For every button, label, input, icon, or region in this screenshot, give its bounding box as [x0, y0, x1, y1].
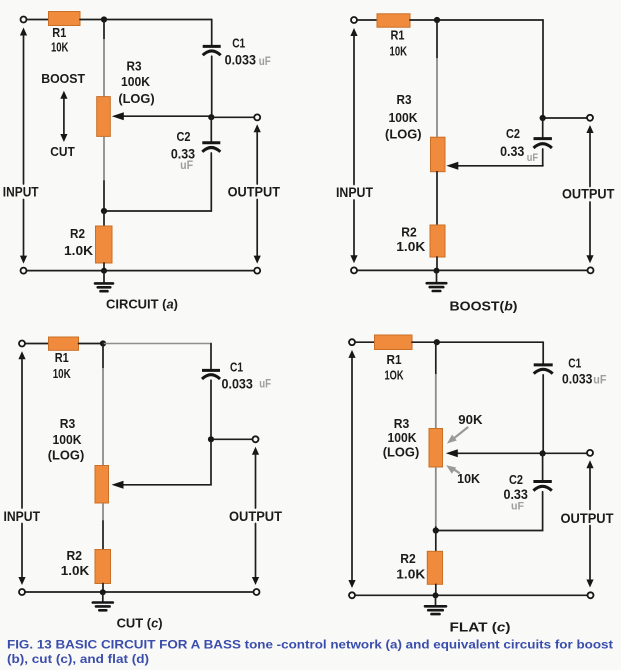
wiper arrow into R3 (circuit a): [112, 112, 212, 120]
node: top junction (circuit c): [100, 340, 106, 346]
wire: R2 top lead already drawn; resistor R2 (circuit b): [430, 225, 445, 257]
terminal: input bottom (circuit d): [349, 592, 355, 598]
bottom rail (circuit d): [355, 594, 587, 596]
node: top junction (circuit d): [434, 339, 440, 345]
svg-text:C2: C2: [506, 126, 520, 141]
svg-text:C1: C1: [230, 359, 243, 374]
wire: C2 top lead (circuit b): [542, 118, 544, 137]
terminal: output bottom (circuit c): [254, 589, 260, 595]
wire: C1 bottom lead (circuit a): [211, 56, 213, 117]
pot track lower gray (circuit c): [102, 503, 104, 521]
svg-text:BOOST(b): BOOST(b): [450, 298, 518, 313]
node: ground junction (circuit a): [101, 268, 107, 274]
terminal: input top (circuit c): [19, 341, 25, 347]
wire: R1 to C1 corner (circuit a): [80, 19, 212, 21]
node: ground junction (circuit d): [433, 592, 439, 598]
wire: R1 to top-right corner (circuit d): [412, 341, 543, 343]
svg-text:uF: uF: [259, 54, 271, 68]
ground (circuit a): [95, 271, 113, 291]
svg-text:R1: R1: [391, 28, 405, 43]
resistor R2 (circuit d): [427, 551, 442, 584]
svg-text:0.033: 0.033: [562, 372, 593, 387]
pot track upper gray (circuit c): [102, 368, 104, 466]
potentiometer R3 (circuit c): [95, 466, 109, 504]
node: pot bottom junction (circuit a): [101, 208, 107, 214]
wire: C2 bottom to lower junction (circuit a): [104, 153, 211, 211]
pot track lower gray (circuit d): [435, 467, 437, 527]
svg-text:FLAT (c): FLAT (c): [450, 619, 511, 634]
input span arrow (circuit d): [348, 350, 355, 588]
svg-text:C2: C2: [177, 129, 191, 144]
wire: pot bottom lead (circuit b): [436, 172, 438, 225]
wire: pot bottom lead (circuit a): [103, 181, 105, 211]
svg-text:R3: R3: [394, 416, 410, 431]
wiper arrow into R3 (circuit b): [446, 162, 543, 170]
svg-text:100K: 100K: [121, 74, 150, 89]
wire: C2 bottom to wiper (circuit b): [542, 149, 544, 166]
svg-text:1.0K: 1.0K: [61, 563, 90, 578]
resistor R2 (circuit c): [95, 550, 111, 584]
svg-text:OUTPUT: OUTPUT: [228, 184, 281, 199]
output span arrow (circuit d): [586, 460, 593, 587]
input span arrow (circuit b): [350, 28, 357, 263]
svg-text:R1: R1: [52, 25, 66, 40]
terminal: output top (circuit b): [587, 115, 593, 121]
wire: pot top lead (circuit b): [436, 20, 438, 58]
terminal: input top (circuit d): [349, 339, 355, 345]
bottom rail (circuit c): [25, 591, 253, 593]
wire: junction to output terminal (circuit c): [214, 438, 253, 440]
svg-text:100K: 100K: [53, 432, 82, 447]
capacitor C1 (circuit c): [202, 370, 220, 379]
resistor R2 (circuit a): [96, 226, 113, 263]
potentiometer R3 (circuit a): [97, 97, 111, 137]
svg-text:OUTPUT: OUTPUT: [229, 509, 283, 524]
terminal: input bottom (circuit a): [21, 268, 27, 274]
wire: C1 bottom lead to wiper node (circuit d): [542, 375, 544, 454]
wire: node to C1 corner light (circuit c): [103, 343, 211, 345]
svg-text:(LOG): (LOG): [383, 446, 420, 460]
terminal: output bottom (circuit d): [588, 592, 594, 598]
pot track upper gray (circuit a): [103, 39, 105, 97]
svg-text:FIG. 13 BASIC CIRCUIT FOR A BA: FIG. 13 BASIC CIRCUIT FOR A BASS tone -c…: [7, 638, 613, 652]
svg-text:10K: 10K: [457, 471, 481, 486]
svg-text:(LOG): (LOG): [48, 449, 85, 463]
wire: junction to R2 (circuit a): [103, 211, 105, 226]
output span arrow (circuit b): [586, 125, 593, 263]
svg-text:CUT: CUT: [50, 144, 75, 159]
node: ground junction (circuit c): [100, 589, 106, 595]
svg-text:R3: R3: [397, 92, 412, 107]
node: lower junction (circuit d): [433, 527, 439, 533]
pot track lower gray (circuit a): [103, 136, 105, 181]
node: ground junction (circuit b): [434, 268, 440, 274]
svg-text:uF: uF: [511, 500, 524, 512]
svg-text:(LOG): (LOG): [118, 92, 154, 106]
svg-text:R2: R2: [401, 225, 417, 240]
node: wiper-output junction (circuit a): [208, 114, 214, 120]
wire: input terminal to R1 (circuit a): [27, 19, 49, 21]
svg-text:100K: 100K: [389, 110, 418, 125]
capacitor C2 (circuit a): [202, 143, 220, 152]
wire: junction to R2 (circuit d): [435, 531, 437, 552]
svg-text:R2: R2: [70, 226, 85, 241]
wire: top corner down to C2 node (circuit b): [542, 20, 544, 118]
ground (circuit c): [93, 592, 113, 610]
terminal: output top (circuit d): [587, 450, 593, 456]
wire: top corner down to C1 (circuit d): [542, 342, 544, 363]
wiper arrow into R3 (circuit d): [446, 449, 587, 457]
svg-text:C2: C2: [509, 472, 523, 487]
svg-text:10K: 10K: [390, 44, 408, 59]
svg-text:0.033: 0.033: [222, 377, 254, 392]
svg-text:(b), cut (c), and flat (d): (b), cut (c), and flat (d): [7, 652, 149, 666]
wire: pot top lead (circuit c): [102, 344, 104, 369]
terminal: input bottom (circuit b): [351, 267, 357, 273]
wire: input terminal to R1 (circuit b): [357, 19, 377, 21]
svg-text:R1: R1: [55, 350, 69, 365]
wire: R2 to bottom rail (circuit a): [103, 263, 105, 271]
terminal: output top (circuit a): [254, 114, 260, 120]
wire: pot top lead (circuit a): [103, 20, 105, 40]
svg-text:0.33: 0.33: [500, 144, 525, 159]
bottom rail (circuit a): [27, 270, 254, 272]
node: wiper-C2 junction (circuit d): [540, 450, 546, 456]
terminal: output top (circuit c): [253, 436, 259, 442]
wire: C1 bottom lead (circuit c): [210, 380, 212, 439]
capacitor C1 (circuit a): [203, 46, 221, 55]
input span arrow (circuit a): [20, 28, 27, 264]
svg-text:uF: uF: [259, 377, 271, 391]
capacitor C2 (circuit d): [533, 482, 551, 491]
wire: C2 top lead (circuit a): [210, 117, 212, 141]
node: output junction (circuit c): [208, 436, 214, 442]
svg-text:1.0K: 1.0K: [396, 567, 426, 582]
svg-text:R2: R2: [66, 548, 82, 563]
svg-text:0.033: 0.033: [225, 53, 257, 68]
svg-text:uF: uF: [593, 372, 606, 386]
wire: R1 to top-right corner (circuit b): [410, 19, 543, 21]
svg-text:1OK: 1OK: [385, 368, 404, 383]
output span arrow (circuit a): [254, 124, 261, 263]
svg-text:(LOG): (LOG): [385, 127, 422, 141]
svg-text:C1: C1: [232, 36, 245, 51]
node: top junction (circuit b): [434, 17, 440, 23]
wiper arrow into R3 (circuit c): [112, 481, 124, 489]
wire: R2 to bottom rail (circuit b): [436, 257, 438, 270]
ground (circuit d): [425, 595, 446, 614]
svg-text:1.0K: 1.0K: [396, 239, 426, 254]
wire: R2 to bottom rail (circuit c): [102, 584, 104, 593]
boost-cut double arrow (circuit a): [60, 91, 67, 142]
wire: C2 bottom to lower junction (circuit d): [436, 492, 543, 531]
resistor R1 (circuit a): [49, 12, 81, 26]
gray arrow 90K to R3 (circuit d): [447, 428, 468, 444]
bottom rail (circuit b): [357, 269, 587, 271]
wire: C1 top lead (circuit a): [211, 20, 213, 46]
wire: junction to output terminal (circuit b): [546, 117, 587, 119]
wire: C1 top lead (circuit c): [210, 344, 212, 370]
svg-text:INPUT: INPUT: [4, 509, 41, 524]
wire: input terminal to R1 (circuit d): [355, 341, 374, 343]
input span arrow (circuit c): [18, 351, 25, 585]
svg-text:uF: uF: [180, 158, 193, 172]
svg-text:INPUT: INPUT: [3, 184, 39, 199]
svg-text:CUT (c): CUT (c): [117, 616, 163, 631]
pot track upper gray (circuit d): [435, 374, 437, 429]
terminal: input bottom (circuit c): [19, 589, 25, 595]
wire: pot top lead (circuit d): [435, 342, 437, 374]
svg-text:10K: 10K: [53, 366, 71, 381]
terminal: input top (circuit b): [351, 17, 357, 23]
capacitor C1 (circuit d): [534, 365, 553, 374]
capacitor C2 (circuit b): [534, 139, 552, 148]
svg-text:OUTPUT: OUTPUT: [562, 187, 615, 202]
wire: input terminal to R1 (circuit c): [25, 343, 48, 345]
resistor R1 (circuit d): [375, 335, 413, 350]
wire: junction down to wiper (circuit c): [122, 442, 211, 485]
potentiometer R3 (circuit b): [431, 137, 446, 172]
pot track upper gray (circuit b): [436, 58, 438, 137]
wire: C2 top lead (circuit d): [542, 453, 544, 480]
wire: pot bottom lead (circuit c): [102, 521, 104, 550]
svg-text:C1: C1: [568, 355, 581, 370]
svg-text:R1: R1: [387, 352, 402, 367]
output span arrow (circuit c): [252, 447, 259, 585]
svg-text:R3: R3: [60, 416, 76, 431]
svg-text:INPUT: INPUT: [336, 185, 374, 200]
wire: pot to lower junction (circuit d): [435, 527, 437, 531]
node: C2-output junction (circuit b): [540, 115, 546, 121]
resistor R1 (circuit c): [49, 337, 79, 350]
wire: junction to output terminal (circuit a): [214, 116, 254, 118]
svg-text:R3: R3: [127, 59, 142, 74]
ground (circuit b): [427, 271, 447, 291]
terminal: input top (circuit a): [21, 17, 27, 23]
svg-text:OUTPUT: OUTPUT: [561, 511, 615, 526]
gray arrow 10K to R3 (circuit d): [446, 465, 459, 474]
svg-text:BOOST: BOOST: [41, 71, 85, 86]
terminal: output bottom (circuit b): [588, 267, 594, 273]
node: top junction (circuit a): [101, 16, 107, 22]
svg-text:R2: R2: [400, 551, 416, 566]
svg-text:1.0K: 1.0K: [64, 243, 94, 258]
resistor R1 (circuit b): [377, 14, 410, 27]
svg-text:90K: 90K: [458, 412, 483, 427]
wire: R1 to node (circuit c): [79, 343, 104, 345]
svg-text:CIRCUIT (a): CIRCUIT (a): [106, 296, 178, 311]
svg-text:100K: 100K: [388, 430, 417, 445]
potentiometer R3 (circuit d): [429, 429, 443, 468]
wire: R2 to bottom rail (circuit d): [435, 584, 437, 595]
svg-text:uF: uF: [527, 152, 538, 164]
svg-text:10K: 10K: [51, 39, 69, 54]
terminal: output bottom (circuit a): [254, 268, 260, 274]
